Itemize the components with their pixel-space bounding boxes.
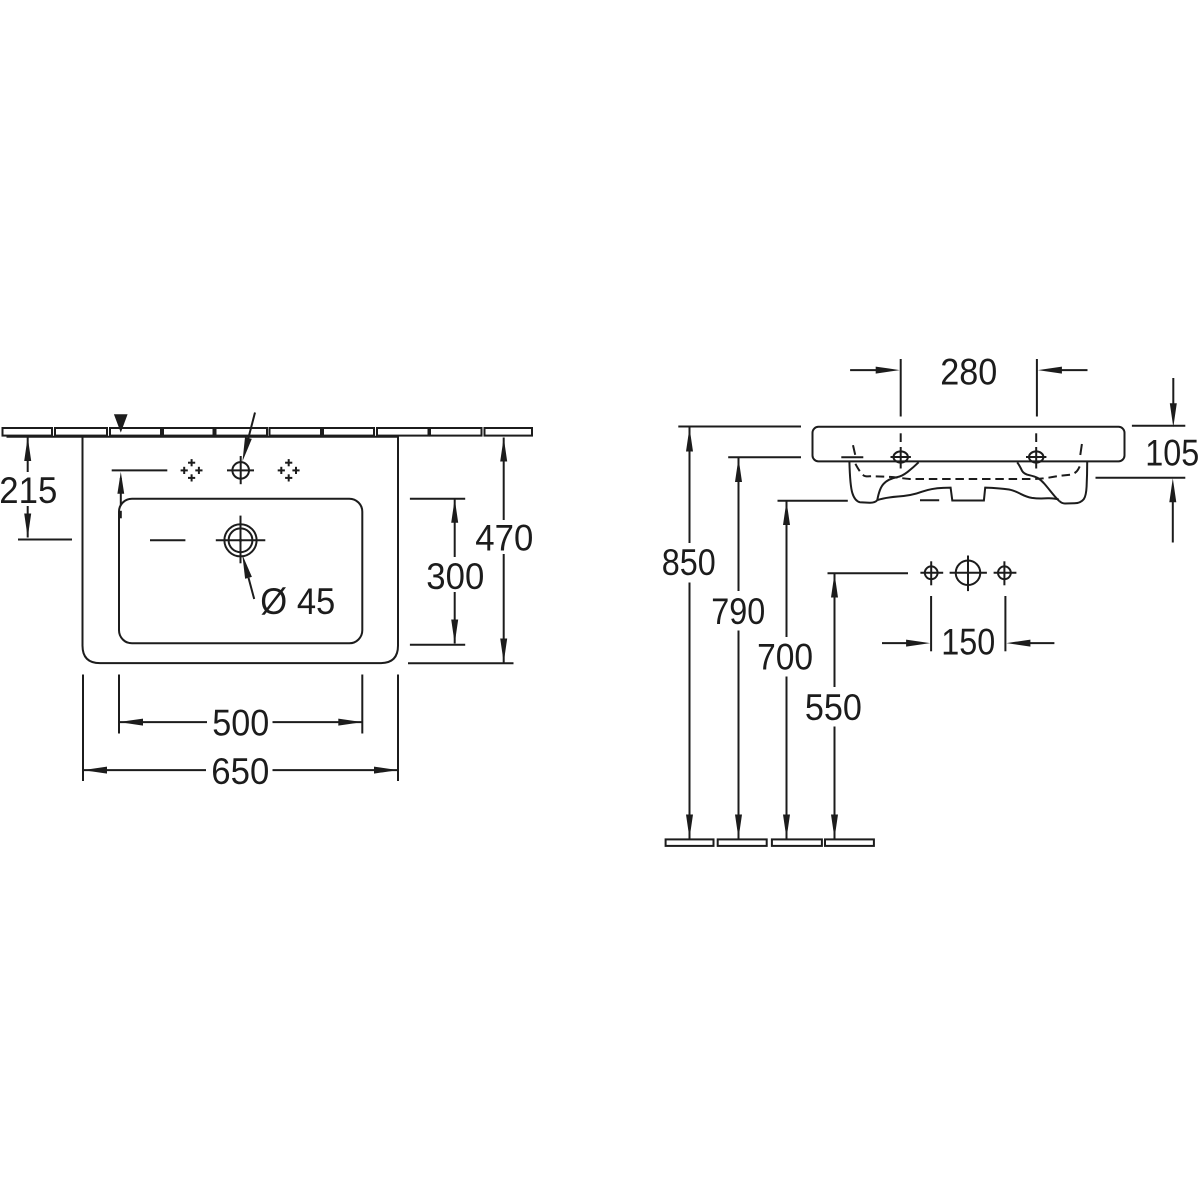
central tap hole [227, 456, 254, 484]
svg-text:470: 470 [475, 518, 533, 559]
svg-text:Ø 45: Ø 45 [260, 581, 335, 622]
inner bowl (top view) [119, 499, 362, 644]
dimension 215 [0, 437, 72, 540]
bowl underside left leg outer profile [849, 462, 877, 503]
right optional tap hole (plus cluster) [278, 459, 300, 481]
right fixing hole [1026, 433, 1046, 468]
svg-text:105: 105 [1145, 433, 1199, 474]
svg-text:550: 550 [805, 687, 862, 728]
dimension 550 [805, 573, 908, 838]
svg-text:215: 215 [0, 470, 57, 511]
left cross mark on slab [853, 445, 855, 455]
svg-text:280: 280 [940, 352, 997, 393]
tap-line arrow at bowl left [117, 472, 124, 518]
svg-text:650: 650 [211, 751, 269, 792]
dimension 700 [757, 500, 939, 838]
dimension 850 [662, 427, 801, 839]
mounting holes row: center hole [950, 556, 987, 592]
basin outer rim (top view) [83, 437, 399, 663]
svg-text:300: 300 [426, 556, 484, 597]
leader to central tap hole [243, 413, 256, 462]
svg-text:790: 790 [711, 591, 765, 632]
hidden bowl bottom line (dashed) [855, 464, 1080, 479]
wall reference triangle marker [114, 414, 128, 432]
dimension 470 [408, 438, 533, 664]
mounting holes row: left small hole [920, 561, 943, 585]
front view: basin slab [813, 427, 1125, 462]
left optional tap hole (plus cluster) [181, 459, 203, 481]
svg-text:500: 500 [212, 702, 269, 743]
bowl underside left hook inner curve [877, 462, 918, 500]
dimension 500 [119, 675, 362, 744]
floor hatch band [666, 839, 874, 846]
dimension 150 [882, 596, 1054, 663]
leader for drain diameter [242, 555, 254, 599]
mounting holes row: right small hole [994, 561, 1017, 585]
bowl underside front bottom edge with drain boss [877, 488, 1058, 501]
dimension 300 [410, 499, 484, 645]
right cross mark on slab [1080, 444, 1082, 455]
drain hole [216, 516, 265, 564]
svg-text:700: 700 [757, 637, 813, 678]
bowl underside right leg outer profile [1059, 462, 1087, 504]
svg-text:150: 150 [941, 622, 995, 663]
dimension 790 [711, 457, 863, 838]
dimension 105 [1096, 378, 1200, 543]
drain centerline segment [150, 539, 185, 541]
tap hole centerline [112, 469, 168, 471]
left fixing hole [891, 433, 911, 468]
extension line at wall level for dim 215 [7, 436, 83, 438]
bowl underside right hook inner curve [1017, 462, 1059, 501]
dimension 650 [83, 675, 398, 792]
dimension 280 [850, 352, 1087, 417]
svg-text:850: 850 [662, 542, 716, 583]
wall hatch band (top view) [3, 428, 533, 436]
